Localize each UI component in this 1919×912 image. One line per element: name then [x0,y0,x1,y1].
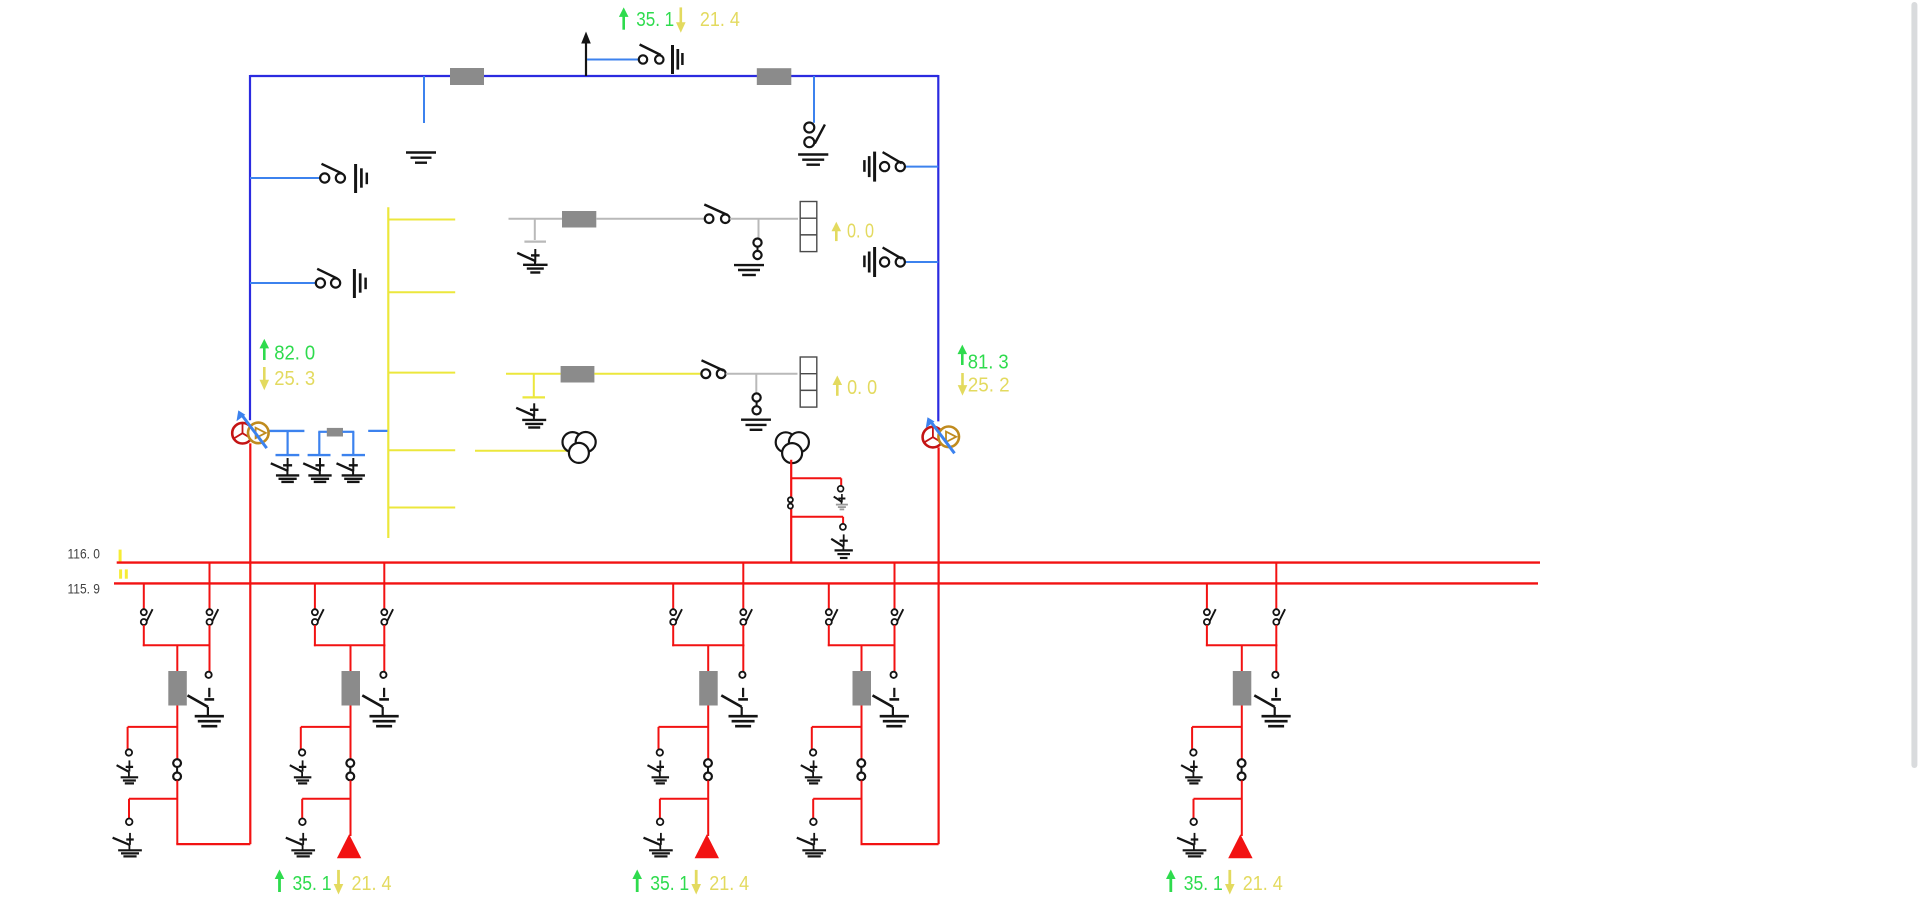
bay1 line earthing switch [208,688,210,697]
bay1 series disconnect circles [173,759,181,767]
bay2 line earthing switch [383,688,385,697]
bay5 wire to earthing contact [1275,645,1277,672]
110kV bus II [114,582,1538,584]
wire drop to earthing switch top right [813,76,815,123]
bay1 disconnect drop to bus I [209,563,211,610]
bay2 load arrow [337,834,361,858]
bay1 bus II disconnect [141,609,147,615]
svg-text:21. 4: 21. 4 [1243,873,1283,895]
breaker QF1 on top bus [450,68,484,85]
bay4 branch2 wire [813,798,861,800]
bay5 received value 21.4 [1228,870,1231,885]
wire capacitor bank to yellow bus [368,430,387,432]
feeder2 drop to ground disconnect [755,374,757,394]
svg-text:25. 3: 25. 3 [274,368,315,390]
T4 branch A wire [791,477,841,479]
ground below earthing disconnect [798,153,828,155]
bay3 disconnect drop to bus I [742,563,744,610]
bay3 wire to earthing contact [742,645,744,672]
feeder2 ground disconnect circles [753,393,761,401]
bay4 branch1 wire [812,726,862,728]
wire 220kV bus ring right [937,75,939,421]
transformer T1 star winding [232,423,253,444]
bay4 wire to earthing contact [894,645,896,672]
svg-text:0. 0: 0. 0 [847,377,877,399]
yellow bus stub 4 [388,449,455,451]
wire T2 to 110kV bus [937,447,939,844]
bay4 earthing contact [891,672,897,678]
bay1 branch2 contact [126,819,133,826]
bay2 stem wire upper [350,645,352,671]
T4 series disconnect circles [788,497,793,502]
bay2 wire to earthing contact [383,645,385,672]
capacitor C1 [287,431,289,454]
earthing disconnect QS-E top right [804,123,814,133]
capacitor bank earthing switch 1 [287,458,289,471]
bay1 wire below left disconnect [143,625,145,646]
bay2 disconnect drop to bus I [383,563,385,610]
ground below stub [406,151,436,153]
bay4 line earthing switch [893,688,895,697]
bay2 branch2 contact [299,819,306,826]
bus II voltage ticks [119,569,122,578]
capacitor bank earthing switch 2 [319,458,321,471]
T4 branch B wire [791,516,843,518]
bay3 earthing contact [739,672,745,678]
bay4 branch2 contact [810,819,817,826]
bay5 stem wire lower [1241,780,1243,836]
bay2 branch2 wire [302,798,350,800]
bay2 branch1 contact [299,749,305,755]
svg-text:82. 0: 82. 0 [274,343,315,365]
bay5 branch2 contact [1190,819,1197,826]
feeder1 flow arrow [835,230,838,241]
bay3 branch1 earthing switch [659,760,661,771]
disconnect switch QS-line [639,55,647,63]
bay3 series disconnect circles [704,759,712,767]
feeder1 drop to ground disconnect [758,219,760,239]
wire T4 to bus 116 [790,460,792,563]
bay5 branch2 earthing switch [1194,833,1196,845]
bay1 wire to earthing contact [209,645,211,672]
T4 branch B contact [840,524,846,530]
bay3 branch2 wire [660,798,708,800]
bay1 stem wire upper [176,645,178,671]
bay2 branch1 earthing switch [302,760,304,771]
wire 220kV bus ring left [249,75,251,420]
svg-text:21. 4: 21. 4 [709,873,749,895]
bay4 disconnect drop to bus I [894,563,896,610]
bay2 series disconnect circles [346,759,354,767]
bay4 breaker [853,671,872,706]
svg-text:35. 1: 35. 1 [636,9,674,31]
bay4 wire to transformer [861,843,939,845]
svg-text:81. 3: 81. 3 [968,351,1009,373]
T4 branch A earthing switch [841,494,843,502]
ground bars of line disconnect [671,45,674,74]
bay3 bus I disconnect [740,609,746,615]
bay1 branch1 contact [126,749,132,755]
feeder2 wire right [726,373,798,375]
bay2 bus II disconnect [312,609,318,615]
bay1 stem wire mid [176,706,178,760]
bay2 bus I disconnect [381,609,387,615]
bay4 bus I disconnect [892,609,898,615]
T2 load labels [961,353,964,365]
bay1 branch1 earthing switch [128,760,130,771]
bay5 tie wire [1206,644,1277,646]
T1 load labels [263,347,266,360]
top line load labels [622,16,625,30]
three-winding transformer T3 [563,432,583,452]
bay4 wire below left disconnect [828,625,830,646]
T4 branch B earthing switch [843,534,845,546]
bay1 branch2 wire [129,798,177,800]
bay2 earthing contact [380,672,386,678]
bay5 branch1 wire [1192,726,1242,728]
bay2 branch2 earthing switch [302,833,304,845]
wire yellow to transformer T3 [475,450,569,452]
bay5 series disconnect circles [1238,759,1246,767]
transformer T1 delta winding [248,423,269,444]
wire T1 to 110kV bus [249,443,251,844]
svg-text:35. 1: 35. 1 [293,873,332,895]
yellow bus stub 5 [388,507,455,509]
feeder2 wire left [506,373,561,375]
bay2 stem wire mid [350,706,352,760]
feeder2 voltage transformer stack [800,357,817,374]
bay3 load arrow [695,834,719,858]
bay4 series disconnect circles [857,759,865,767]
bay5 sent value 35.1 [1169,878,1172,892]
bay2 wire below right disconnect [383,625,385,646]
feeder2 wire mid [594,373,701,375]
feeder2 tee stub [533,374,535,397]
capacitor filter bridge [318,432,320,454]
bay4 tie wire [828,644,896,646]
bus I voltage tick [119,550,122,562]
bay4 disconnect drop to bus II [828,583,830,609]
bay4 branch1 contact [810,749,816,755]
bay5 breaker [1233,671,1252,706]
bay4 bus II disconnect [826,609,832,615]
bay2 received value 21.4 [337,870,340,885]
wire stub from top bus [423,76,425,123]
bay1 branch2 earthing switch [129,833,131,845]
feeder1 breaker [562,211,596,228]
bay5 branch2 wire [1194,798,1242,800]
bay3 branch1 wire [659,726,709,728]
bay3 sent value 35.1 [636,878,639,892]
feeder2 disconnect switch [701,369,710,378]
wire transformer to capacitor bank [269,430,305,432]
bay5 stem wire mid [1241,706,1243,760]
bay3 wire below left disconnect [672,625,674,646]
svg-text:115. 9: 115. 9 [68,581,101,596]
bay3 received value 21.4 [695,870,698,885]
feeder1 wire mid [596,218,704,220]
feeder2 flow arrow [836,384,839,396]
bay5 bus I disconnect [1273,609,1279,615]
bay5 line earthing switch [1275,688,1277,697]
bay5 stem wire upper [1241,645,1243,671]
svg-text:21. 4: 21. 4 [352,873,392,895]
bay5 earthing contact [1272,672,1278,678]
yellow bus stub 3 [388,372,455,374]
bay4 branch2 earthing switch [813,833,815,845]
bay2 wire below left disconnect [314,625,316,646]
bay2 branch1 wire [301,726,351,728]
bay3 breaker [699,671,718,706]
svg-text:0. 0: 0. 0 [847,221,874,243]
bay5 disconnect drop to bus II [1206,583,1208,609]
capacitor bank earthing switch 3 [352,458,354,471]
bay5 branch1 contact [1190,749,1196,755]
bay1 breaker [168,671,187,706]
svg-text:25. 2: 25. 2 [968,374,1010,396]
bay2 disconnect drop to bus II [314,583,316,609]
bay2 tie wire [314,644,385,646]
svg-text:35. 1: 35. 1 [650,873,689,895]
bay5 wire below left disconnect [1206,625,1208,646]
T4 branch A contact [838,486,844,492]
yellow bus stub 1 [388,219,455,221]
feeder1 voltage transformer stack [800,202,817,219]
bay5 branch1 earthing switch [1193,760,1195,771]
capacitor C3 plate [342,454,365,456]
bay3 branch1 contact [657,749,663,755]
bay3 bus II disconnect [670,609,676,615]
left bay disconnect B to ground [250,282,315,284]
feeder1 earthing switch [534,249,536,263]
capacitor C2 plate [308,454,331,456]
line exit arrow [585,43,587,77]
bay2 sent value 35.1 [278,878,281,892]
transformer T2 delta winding [938,427,959,448]
bay4 branch1 earthing switch [813,760,815,771]
bay3 tie wire [672,644,744,646]
bay2 breaker [342,671,361,706]
wire to line disconnect [587,59,638,61]
bay3 branch2 earthing switch [660,833,662,845]
bay2 stem wire lower [350,780,352,836]
bay1 wire below right disconnect [209,625,211,646]
transformer T2 star winding [923,427,944,448]
feeder2 earthing switch [533,403,535,416]
breaker QF2 on top bus [757,68,792,85]
right bay disconnect D to ground [906,261,939,263]
svg-text:35. 1: 35. 1 [1184,873,1223,895]
svg-text:21. 4: 21. 4 [700,9,740,31]
bay1 bus I disconnect [207,609,213,615]
yellow bus stub 2 [388,291,455,293]
bay1 stem wire lower [176,780,178,844]
bay3 branch2 contact [657,819,664,826]
transformer T2 tap arrow [931,421,955,453]
bay5 bus II disconnect [1204,609,1210,615]
bay3 line earthing switch [742,688,744,697]
bay3 stem wire upper [707,645,709,671]
feeder1 wire left [509,218,563,220]
left bay disconnect A to ground [250,177,320,179]
three-winding transformer T4 [776,432,796,452]
bay1 tie wire [143,644,211,646]
bay5 load arrow [1228,834,1252,858]
bay1 disconnect drop to bus II [143,583,145,609]
bay4 stem wire upper [861,645,863,671]
bay5 disconnect drop to bus I [1275,563,1277,610]
feeder1 disconnect switch [705,214,714,223]
bay4 stem wire lower [861,780,863,844]
feeder1 tee stub [534,219,536,240]
35kV yellow bus vertical [387,207,389,538]
bay4 wire below right disconnect [894,625,896,646]
transformer T1 tap arrow [241,415,266,449]
feeder1 ground disconnect circles [753,239,761,247]
bay3 stem wire lower [707,780,709,836]
feeder1 ground [734,264,764,266]
110kV bus I [117,561,1540,563]
wire 220kV bus ring top [250,75,938,77]
feeder1 wire right [730,218,798,220]
bay3 disconnect drop to bus II [672,583,674,609]
svg-text:116. 0: 116. 0 [68,547,101,562]
bay1 earthing contact [206,672,212,678]
feeder2 ground [741,419,771,421]
bay3 stem wire mid [707,706,709,760]
scrollbar thumb [1911,2,1917,768]
bay5 wire below right disconnect [1275,625,1277,646]
right bay disconnect C to ground [906,166,939,168]
bay3 wire below right disconnect [742,625,744,646]
bay4 stem wire mid [861,706,863,760]
bay1 branch1 wire [128,726,178,728]
feeder2 breaker [561,366,595,383]
bay1 wire to transformer [176,843,250,845]
